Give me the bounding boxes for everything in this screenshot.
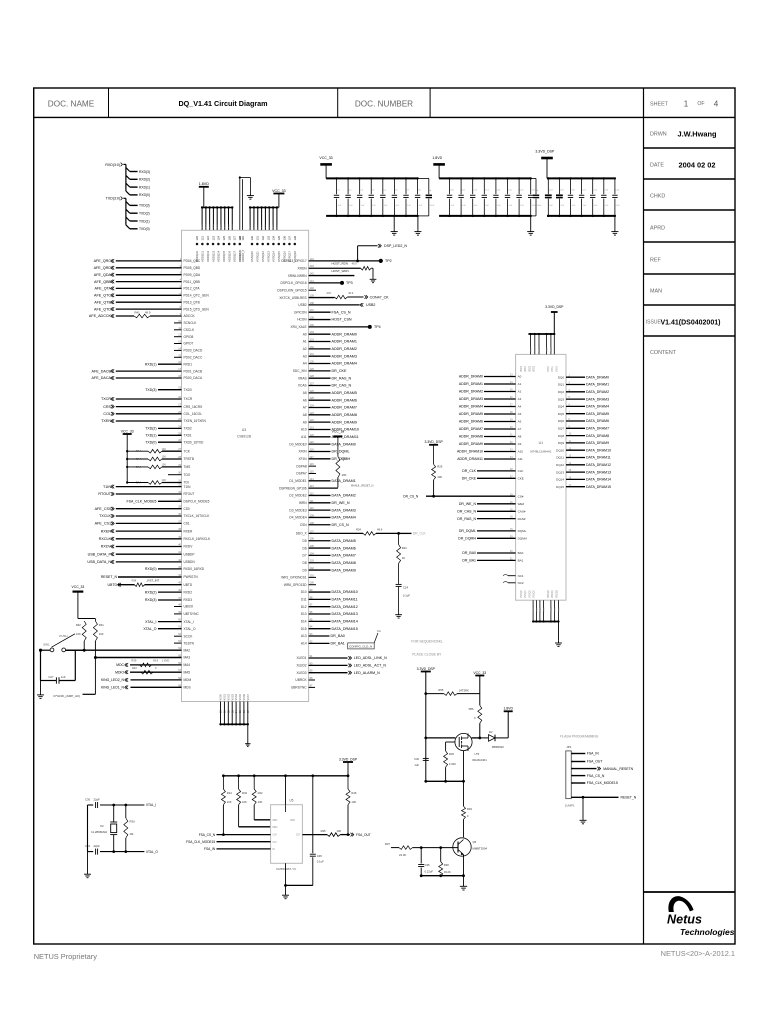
svg-text:127: 127 [233,236,237,241]
svg-text:DSPA7: DSPA7 [296,472,306,476]
svg-text:C45: C45 [317,854,323,858]
svg-text:3.3VD_DSP: 3.3VD_DSP [424,440,443,444]
svg-text:D13: D13 [301,612,307,616]
wire MDC [130,664,182,666]
svg-text:Q5: Q5 [473,840,477,844]
svg-text:AFE_QBB: AFE_QBB [94,280,112,284]
svg-text:A0: A0 [303,332,307,336]
svg-text:FSA_CLK_MODE15: FSA_CLK_MODE15 [587,781,618,785]
svg-text:VSSQ0: VSSQ0 [521,590,523,598]
svg-text:DQ6: DQ6 [558,419,565,423]
svg-text:HOST_WRN: HOST_WRN [332,269,349,273]
svg-text:1.8VD: 1.8VD [162,659,169,663]
ground [530,216,532,230]
svg-text:24.3K: 24.3K [399,853,406,857]
svg-text:HCON: HCON [297,318,307,322]
svg-text:.1uF: .1uF [383,205,388,207]
resistor R30 [125,805,127,818]
svg-text:DQ15: DQ15 [556,485,564,489]
ground [558,622,560,641]
svg-text:A4: A4 [518,405,522,409]
op-amp U1 body SDRAM [516,354,566,600]
svg-text:D2_MODE2: D2_MODE2 [289,494,306,498]
ground [417,216,419,230]
svg-text:T1IN: T1IN [103,485,111,489]
seq ground rail [421,875,463,877]
U1 pin DQ3 [566,398,585,400]
capacitor C21 [580,177,582,179]
svg-text:PUSH: PUSH [59,634,67,638]
svg-text:ADDR_DRAM8: ADDR_DRAM8 [459,435,483,439]
svg-text:UBTD: UBTD [107,583,117,587]
svg-text:134: 134 [272,236,276,241]
wire MANUL_RESET_N [309,487,338,489]
U1 top power rail [528,333,554,335]
pin stub [264,206,266,208]
svg-text:10uF: 10uF [537,205,542,207]
svg-text:C30: C30 [85,798,91,802]
svg-text:VDD: VDD [202,224,204,229]
svg-text:Netus: Netus [667,913,702,927]
svg-text:USB2: USB2 [298,303,307,307]
svg-text:MANUAL_RESETN: MANUAL_RESETN [603,767,633,771]
svg-text:TXD(2): TXD(2) [139,212,150,216]
svg-text:VSS: VSS [544,607,546,612]
svg-text:R37: R37 [385,842,391,846]
svg-text:MA4: MA4 [184,663,191,667]
svg-text:VSSQ2: VSSQ2 [529,590,531,598]
diode D2 MBR0520 [480,737,489,739]
ground [393,216,395,230]
svg-text:124: 124 [217,236,221,241]
svg-text:UBRCK: UBRCK [295,678,307,682]
svg-text:A3: A3 [303,354,307,358]
svg-text:ADDR_DRAM8: ADDR_DRAM8 [332,413,357,417]
svg-text:TXD1: TXD1 [184,434,192,438]
svg-text:UBTSYNC: UBTSYNC [184,612,200,616]
svg-text:C27: C27 [48,675,54,679]
svg-text:VSS7: VSS7 [247,693,250,700]
svg-text:USBDN: USBDN [184,560,196,564]
svg-text:DSP_LED2_N: DSP_LED2_N [384,244,407,248]
svg-text:DQ4: DQ4 [558,405,565,409]
svg-text:VSS1: VSS1 [224,693,227,700]
wire source down [463,751,465,782]
pin stub [208,206,210,208]
U5 ground pin [285,863,287,885]
svg-text:VCC: VCC [250,224,252,229]
svg-text:D2: D2 [489,730,493,734]
svg-text:DATA_DRAM1: DATA_DRAM1 [332,479,356,483]
svg-text:TXD(0): TXD(0) [145,440,156,444]
svg-text:U3: U3 [242,428,247,432]
svg-text:KING_LED1_N: KING_LED1_N [101,686,125,690]
svg-text:VDD: VDD [535,347,537,352]
svg-text:VSS: VSS [540,607,542,612]
svg-text:49.9: 49.9 [348,291,354,295]
svg-text:R24: R24 [356,528,361,532]
U1 pin A1 [484,383,516,385]
wire [126,217,130,221]
svg-text:VCC: VCC [265,224,267,229]
svg-text:49.9: 49.9 [153,659,159,663]
svg-text:JUMP1: JUMP1 [565,804,575,808]
svg-text:VCC_33: VCC_33 [272,189,286,193]
svg-text:VCC: VCC [277,224,279,229]
svg-text:RESET_N: RESET_N [621,796,637,800]
svg-text:121: 121 [201,236,205,241]
svg-text:DATA_DRAM15: DATA_DRAM15 [332,627,358,631]
svg-text:OF: OF [697,101,704,107]
svg-text:XTAL_I: XTAL_I [145,620,156,624]
wire cap to switch right [74,650,76,680]
svg-text:R29: R29 [437,465,443,469]
svg-text:CRS: CRS [103,405,111,409]
capacitor C19 [558,177,560,179]
svg-text:AFE_ADCCK: AFE_ADCCK [89,314,112,318]
svg-text:ADDR_DRAM3: ADDR_DRAM3 [332,354,357,358]
U3 top power rail A [202,207,232,209]
capacitor C27 [41,680,57,682]
resistor R34 series UBTD [118,584,135,586]
svg-text:10K: 10K [342,473,347,477]
svg-text:TXEN: TXEN [101,419,111,423]
svg-text:AFE_QDA: AFE_QDA [94,273,112,277]
svg-text:MDIO: MDIO [115,670,124,674]
svg-text:ADDR_DRAM11: ADDR_DRAM11 [457,457,483,461]
svg-text:A10: A10 [301,428,307,432]
svg-text:CS1: CS1 [184,522,190,526]
svg-text:TXD(1): TXD(1) [139,219,150,223]
U1 pin A4 [484,406,516,408]
svg-text:TXCLK_16TXCLK: TXCLK_16TXCLK [184,514,211,518]
svg-text:AFE_CS1: AFE_CS1 [95,522,111,526]
svg-text:RXER: RXER [101,529,112,533]
svg-text:XRWLXWRN: XRWLXWRN [288,274,308,278]
capacitor C16 [518,177,520,179]
capacitor C45 rail decouple [312,776,314,853]
svg-text:VSS6: VSS6 [243,693,246,700]
svg-text:MBR0520: MBR0520 [492,745,504,749]
svg-text:VCC: VCC [258,224,260,229]
svg-text:.1uF: .1uF [360,205,365,207]
svg-text:DSPCLK_GPIO16: DSPCLK_GPIO16 [281,281,307,285]
Netus logo swoosh [668,896,693,912]
U1 pin DQ4 [566,405,585,407]
svg-text:1M: 1M [130,832,135,836]
svg-text:DQ_V1.41 Circuit Diagram: DQ_V1.41 Circuit Diagram [178,99,267,108]
svg-text:10uF: 10uF [430,205,435,207]
svg-text:RXCLK: RXCLK [99,537,112,541]
svg-text:CS#: CS# [518,494,524,498]
svg-text:R30: R30 [130,820,136,824]
svg-text:V1.41(DS0402001): V1.41(DS0402001) [661,320,721,327]
svg-text:.1uF: .1uF [395,205,400,207]
svg-text:RXD(0): RXD(0) [139,193,150,197]
svg-text:.1uF: .1uF [615,205,620,207]
capacitor C24 [614,177,616,179]
pin stub [546,333,548,335]
U5 top rail [223,775,348,777]
svg-text:TXD(1): TXD(1) [145,434,156,438]
svg-text:RESET_N: RESET_N [101,575,118,579]
svg-text:HOST_RDN: HOST_RDN [332,262,349,266]
svg-text:D8: D8 [303,561,307,565]
svg-text:VCC_33: VCC_33 [319,156,332,160]
resistor R44 [222,776,224,789]
svg-text:DATA_DRAM11: DATA_DRAM11 [332,598,358,602]
svg-text:R31: R31 [99,623,104,627]
svg-text:RXD(3): RXD(3) [139,170,150,174]
svg-text:R56: R56 [469,707,474,711]
svg-text:DATA_DRAM13: DATA_DRAM13 [332,612,358,616]
svg-text:10K: 10K [162,448,167,451]
svg-text:ADDR_DRAM1: ADDR_DRAM1 [332,340,357,344]
svg-text:NETUS<20>-A-2012.1: NETUS<20>-A-2012.1 [661,949,735,958]
svg-text:A10: A10 [518,450,524,454]
svg-text:PD05_QBD: PD05_QBD [184,266,201,270]
svg-text:WE#: WE# [518,502,525,506]
mosfet U6 IRLML6401 [455,733,472,750]
svg-text:R45: R45 [321,829,326,833]
svg-text:D4_MODE4: D4_MODE4 [289,516,306,520]
svg-text:D7: D7 [303,554,307,558]
ground [249,178,251,194]
resistor R22 [337,436,339,456]
resistor R29 [433,445,435,465]
svg-text:CKI: CKI [273,841,277,844]
svg-text:1.8VD: 1.8VD [503,707,513,711]
capacitor C18 [547,177,549,179]
svg-text:D15: D15 [301,627,307,631]
svg-text:DATA_DRAM4: DATA_DRAM4 [586,405,609,409]
wire left rail to ground [87,805,89,852]
pin stub [257,206,259,208]
svg-text:UBICK: UBICK [184,605,195,609]
svg-text:TXD(2): TXD(2) [145,427,156,431]
ground [582,797,584,818]
resistor R27 to CON47_CK [309,297,335,299]
svg-text:VDD: VDD [225,224,227,229]
U1 pin A10 [484,451,516,453]
U3 bottom ground pins [220,702,222,725]
svg-text:USBDP: USBDP [184,552,195,556]
test point TP2 [379,259,383,263]
svg-text:VDD: VDD [551,347,553,352]
U1 pin A6 [484,421,516,423]
svg-text:ADDR_DRAM6: ADDR_DRAM6 [332,398,357,402]
svg-text:R39: R39 [132,659,137,663]
capacitor C1 [335,177,337,179]
svg-text:DSPA13_GPIO17: DSPA13_GPIO17 [281,259,307,263]
capacitor C5 [382,177,384,179]
svg-text:DATA_DRAM4: DATA_DRAM4 [332,516,356,520]
svg-text:MDS: MDS [184,686,191,690]
capacitor C9 bulk [418,177,429,179]
wire jtag rail [126,434,128,483]
resistor R49 [460,781,462,806]
pin stub [249,206,251,208]
capacitor C13 [483,177,485,179]
svg-text:VDDQ0: VDDQ0 [548,589,550,598]
svg-text:DATA_DRAM3: DATA_DRAM3 [332,508,356,512]
svg-text:DQ13: DQ13 [556,470,564,474]
svg-text:PD14_QTC_GEN: PD14_QTC_GEN [184,294,210,298]
svg-text:D3_MODE3: D3_MODE3 [289,508,306,512]
svg-text:VSSQ1: VSSQ1 [525,590,527,598]
svg-text:.1uF: .1uF [349,205,354,207]
svg-text:PD04_QBC: PD04_QBC [184,259,201,263]
svg-text:MDM: MDM [184,678,192,682]
svg-text:Technologies: Technologies [680,927,735,937]
svg-text:TESTN: TESTN [184,641,195,645]
svg-text:NC1: NC1 [518,574,524,578]
svg-text:DR_BA1: DR_BA1 [331,642,345,646]
svg-text:FSA_OUT: FSA_OUT [356,833,371,837]
svg-text:39.2K: 39.2K [444,870,451,874]
svg-text:TXD0_16TXD: TXD0_16TXD [184,440,205,444]
svg-text:A6: A6 [518,420,522,424]
wire FSA_CLK_MODE15 [217,841,271,843]
svg-text:VDD: VDD [228,224,230,229]
svg-text:VCC_33: VCC_33 [71,585,84,589]
capacitor C7 [405,177,407,179]
U1 pin A0 [484,376,516,378]
svg-text:R43: R43 [242,791,247,795]
svg-text:10K: 10K [351,800,356,804]
svg-text:.1uF: .1uF [508,205,513,207]
svg-text:FOR SEQUENCING,: FOR SEQUENCING, [411,640,443,644]
U1 pin A9 [484,443,516,445]
svg-text:SCCK: SCCK [184,634,194,638]
wire switch left to cap rail [40,650,42,680]
svg-text:DR_CLK: DR_CLK [413,532,426,536]
svg-text:MA2: MA2 [184,648,191,652]
U1 pin DQ5 [566,413,585,415]
U1 pin DQ12 [566,464,585,466]
svg-text:APRD: APRD [650,226,665,232]
svg-text:DQML: DQML [518,529,527,533]
svg-text:COL_16COL: COL_16COL [184,412,203,416]
wire RESET_N [118,576,182,578]
U1 pin DQ15 [566,486,585,488]
wire [126,191,130,195]
svg-text:.1uF: .1uF [485,205,490,207]
svg-text:ADDR_DRAM0: ADDR_DRAM0 [459,375,483,379]
svg-text:XTAL_O: XTAL_O [146,850,159,854]
U1 pin DQ11 [566,457,585,459]
svg-text:OA: OA [377,629,381,633]
svg-text:NC2: NC2 [518,581,524,585]
svg-text:DATE: DATE [650,163,664,169]
svg-text:MT48LC16M4A2: MT48LC16M4A2 [530,450,552,454]
svg-text:R38: R38 [444,863,449,867]
op-amp U5 body [271,805,303,864]
U1 pin DQ13 [566,471,585,473]
net flag CONFIG_CLD_N [348,643,375,649]
svg-text:.1uF: .1uF [450,205,455,207]
capacitor C11 [460,177,462,179]
svg-text:FSA_OUT: FSA_OUT [587,760,603,764]
capacitor C3 [358,177,360,179]
svg-text:A11: A11 [518,457,523,461]
capacitor C24 [398,563,400,584]
svg-text:DQ8: DQ8 [558,434,565,438]
svg-text:ADDR_DRAM5: ADDR_DRAM5 [332,391,357,395]
svg-text:VCC: VCC [269,224,271,229]
svg-text:XTAL_I: XTAL_I [146,803,157,807]
svg-text:COL: COL [103,412,111,416]
svg-text:DATA_DRAM2: DATA_DRAM2 [586,390,609,394]
svg-text:DR_CKE: DR_CKE [462,477,477,481]
svg-text:.1uF: .1uF [473,205,478,207]
svg-text:3.3VD_DSP: 3.3VD_DSP [339,757,358,761]
svg-text:DQ5: DQ5 [558,412,565,416]
svg-text:0.1uF: 0.1uF [317,860,324,864]
svg-text:DSPA8: DSPA8 [296,464,306,468]
svg-text:VCC_33: VCC_33 [121,429,134,433]
svg-text:A7: A7 [518,427,522,431]
svg-text:R46: R46 [351,791,356,795]
crystal X2 [113,805,115,822]
svg-text:.1uF: .1uF [372,205,377,207]
svg-text:DATA_DRAM13: DATA_DRAM13 [586,470,611,474]
svg-text:A5: A5 [303,391,307,395]
svg-text:A4: A4 [303,362,307,366]
svg-text:VSS2: VSS2 [227,693,230,700]
capacitor C22 [592,177,594,179]
svg-text:AFE_CS0: AFE_CS0 [95,507,111,511]
svg-text:TP4: TP4 [374,325,381,329]
svg-text:RXER: RXER [184,529,194,533]
svg-text:BA0: BA0 [518,551,524,555]
svg-text:DATA_DRAM0: DATA_DRAM0 [332,442,356,446]
wire to DSP_LED2_N [309,260,380,262]
svg-text:RXD3: RXD3 [184,598,193,602]
svg-text:PD13_QTB: PD13_QTB [184,300,200,304]
svg-text:DATA_DRAM12: DATA_DRAM12 [586,463,611,467]
svg-text:RXD(2): RXD(2) [145,590,157,594]
svg-text:VSSQ10: VSSQ10 [250,251,254,262]
resistor R55 [426,693,444,695]
svg-text:ADDR_DRAM1: ADDR_DRAM1 [459,382,483,386]
svg-text:XLED1: XLED1 [296,656,306,660]
svg-text:131: 131 [256,236,260,241]
svg-text:TXD(3:0): TXD(3:0) [106,197,120,201]
svg-text:VCC_33: VCC_33 [473,671,486,675]
svg-text:D5: D5 [303,539,307,543]
svg-text:RTOUT: RTOUT [184,492,195,496]
svg-text:DQ2: DQ2 [558,390,565,394]
svg-text:FSA_IN: FSA_IN [587,752,599,756]
svg-text:A3: A3 [518,397,522,401]
svg-text:MMBT2904: MMBT2904 [473,847,488,851]
svg-text:VCC: VCC [261,224,263,229]
oscillator pins pair [239,178,241,231]
svg-text:11.2896MHz: 11.2896MHz [91,830,108,834]
svg-text:RXDV: RXDV [184,545,194,549]
svg-text:PD09_QDA: PD09_QDA [184,273,202,277]
svg-text:DQ1: DQ1 [558,383,565,387]
svg-text:WR6_GPIO13D: WR6_GPIO13D [284,583,307,587]
svg-text:R44: R44 [227,791,232,795]
svg-text:TXD2: TXD2 [184,427,192,431]
pin stub [260,206,262,208]
svg-text:4: 4 [714,100,719,109]
svg-text:_RST_INT: _RST_INT [145,579,160,583]
ground [247,724,249,742]
svg-text:REF: REF [650,258,661,264]
